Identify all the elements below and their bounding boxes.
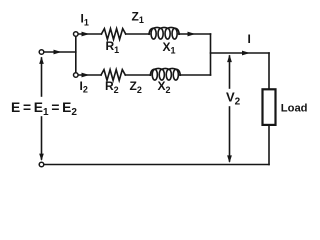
wire: right vertical down to load — [268, 53, 270, 89]
inductor X2 — [150, 68, 180, 80]
arrowhead: E down — [39, 154, 44, 161]
node: top branch input — [74, 32, 79, 37]
svg-text:R1: R1 — [106, 39, 120, 55]
svg-text:X2: X2 — [158, 79, 171, 95]
wire: output line to load branch — [211, 52, 270, 54]
svg-text:V2: V2 — [226, 89, 241, 107]
wire: between R2 and X2 — [125, 74, 150, 76]
wire: left junction vertical bar — [75, 34, 77, 75]
arrowhead: I1 branch current — [82, 32, 90, 37]
svg-text:E = E1 = E2: E = E1 = E2 — [11, 100, 77, 118]
node: bottom branch input — [74, 73, 79, 78]
wire: bottom return rail — [44, 164, 269, 166]
wire: V2 arrow upper segment — [229, 56, 231, 88]
svg-text:R2: R2 — [105, 79, 119, 95]
arrowhead: I2 branch current — [82, 73, 90, 78]
node: left source terminal (bottom) — [39, 162, 44, 167]
svg-text:I2: I2 — [80, 79, 88, 95]
svg-text:I1: I1 — [81, 12, 89, 28]
inductor X1 — [149, 27, 179, 39]
resistor R2 — [101, 70, 125, 81]
wire: E arrow lower segment — [41, 117, 43, 159]
arrowhead: feed current into junction — [54, 50, 62, 55]
resistor R1 — [101, 29, 125, 40]
wire: E arrow upper segment — [41, 58, 43, 96]
wire: top branch X1 to right junction — [179, 33, 211, 35]
wire: right junction vertical bar — [210, 34, 212, 75]
wire: V2 arrow lower segment — [229, 107, 231, 161]
node: left source terminal (top) — [39, 50, 44, 55]
wire: load to bottom rail — [268, 124, 270, 165]
wire: top branch lead from node to R1 — [78, 33, 101, 35]
wire: bottom branch X2 to right junction — [180, 74, 211, 76]
wire: bottom branch lead from node to R2 — [78, 74, 101, 76]
svg-text:Z1: Z1 — [132, 9, 144, 25]
svg-text:Z2: Z2 — [130, 79, 142, 95]
arrowhead: top branch after X1 — [188, 32, 196, 37]
svg-text:I: I — [248, 32, 251, 46]
arrowhead: I output current — [242, 51, 250, 56]
svg-text:X1: X1 — [163, 40, 176, 56]
wire: between R1 and X1 — [126, 33, 150, 35]
arrowhead: E up — [39, 57, 44, 64]
arrowhead: V2 down — [227, 155, 232, 163]
load resistor rectangle — [263, 89, 276, 125]
arrowhead: V2 up — [227, 55, 232, 63]
wire: source feed from terminal to branch junction — [44, 51, 76, 53]
svg-text:Load: Load — [281, 102, 308, 114]
